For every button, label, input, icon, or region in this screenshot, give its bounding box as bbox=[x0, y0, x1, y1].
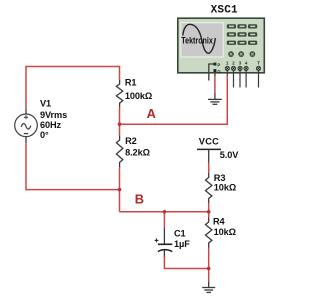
oscilloscope pin G stub bbox=[214, 72, 216, 76]
svg-text:R2: R2 bbox=[125, 136, 137, 146]
oscilloscope pin stubs bbox=[227, 71, 258, 88]
svg-text:9Vrms: 9Vrms bbox=[40, 110, 67, 120]
oscilloscope knobs bbox=[228, 51, 255, 57]
junction V1 bottom / R2 bottom bbox=[118, 188, 122, 192]
junction node A bbox=[118, 122, 122, 126]
svg-text:R3: R3 bbox=[214, 173, 226, 183]
svg-text:5.0V: 5.0V bbox=[220, 150, 239, 160]
oscilloscope button slots bbox=[229, 26, 255, 42]
svg-text:A: A bbox=[147, 106, 156, 121]
svg-text:B: B bbox=[135, 192, 144, 207]
svg-text:P: P bbox=[217, 62, 220, 67]
oscilloscope pin P elbow lead bbox=[209, 64, 214, 81]
wire C1 top branch bbox=[163, 212, 165, 228]
svg-text:R1: R1 bbox=[125, 77, 137, 87]
svg-text:1µF: 1µF bbox=[174, 239, 190, 249]
wire R1 bottom through node A to R2 top bbox=[119, 107, 121, 135]
wire node B horizontal bbox=[120, 211, 209, 213]
wire V1 bottom to node B junction bbox=[26, 143, 120, 190]
wire scope G pin to ground bbox=[214, 76, 216, 93]
ground at bottom bbox=[202, 281, 215, 292]
capacitor C1 bbox=[163, 228, 165, 244]
svg-text:10kΩ: 10kΩ bbox=[214, 227, 236, 237]
oscilloscope channel pins bbox=[225, 66, 260, 70]
wire R3 bottom to R4 top bbox=[208, 203, 210, 218]
wire VCC to R3 bbox=[208, 163, 210, 174]
wire node A to scope channel 1 bbox=[120, 76, 228, 125]
resistor R3 bbox=[206, 173, 212, 203]
oscilloscope pin P bbox=[214, 63, 217, 66]
svg-text:T: T bbox=[257, 61, 260, 66]
svg-text:10kΩ: 10kΩ bbox=[214, 183, 236, 193]
oscilloscope buttons 3x3 bbox=[227, 24, 257, 45]
resistor R1 bbox=[116, 80, 122, 107]
oscilloscope XSC1 body bbox=[178, 18, 264, 73]
svg-text:V1: V1 bbox=[40, 98, 51, 108]
oscilloscope pin G bbox=[214, 69, 217, 72]
wire R4 bottom to ground bbox=[208, 248, 210, 282]
svg-text:60Hz: 60Hz bbox=[40, 120, 62, 130]
svg-text:Tektronix: Tektronix bbox=[181, 34, 213, 45]
junction C1 top bbox=[163, 210, 167, 214]
resistor R2 bbox=[116, 135, 122, 167]
svg-text:G: G bbox=[217, 69, 221, 74]
svg-text:R4: R4 bbox=[213, 216, 226, 226]
oscilloscope screen sine wave bbox=[183, 24, 216, 53]
junction node B / R3 R4 bbox=[207, 210, 211, 214]
wire C1 bottom to ground junction bbox=[164, 256, 208, 269]
svg-text:XSC1: XSC1 bbox=[211, 5, 238, 17]
svg-text:C1: C1 bbox=[174, 228, 186, 238]
wire V1 top to R1 top bbox=[26, 67, 120, 109]
svg-text:0°: 0° bbox=[40, 130, 49, 140]
ground at scope bbox=[208, 93, 222, 105]
resistor R4 bbox=[206, 218, 212, 248]
voltage source V1 bbox=[25, 108, 27, 114]
junction R4 bottom / C1 bottom bbox=[207, 267, 211, 271]
svg-text:8.2kΩ: 8.2kΩ bbox=[125, 148, 150, 158]
svg-text:VCC: VCC bbox=[199, 136, 219, 146]
oscilloscope screen bbox=[181, 23, 223, 57]
wire R2 bottom to node B corner bbox=[119, 167, 121, 211]
svg-text:100kΩ: 100kΩ bbox=[125, 91, 152, 101]
